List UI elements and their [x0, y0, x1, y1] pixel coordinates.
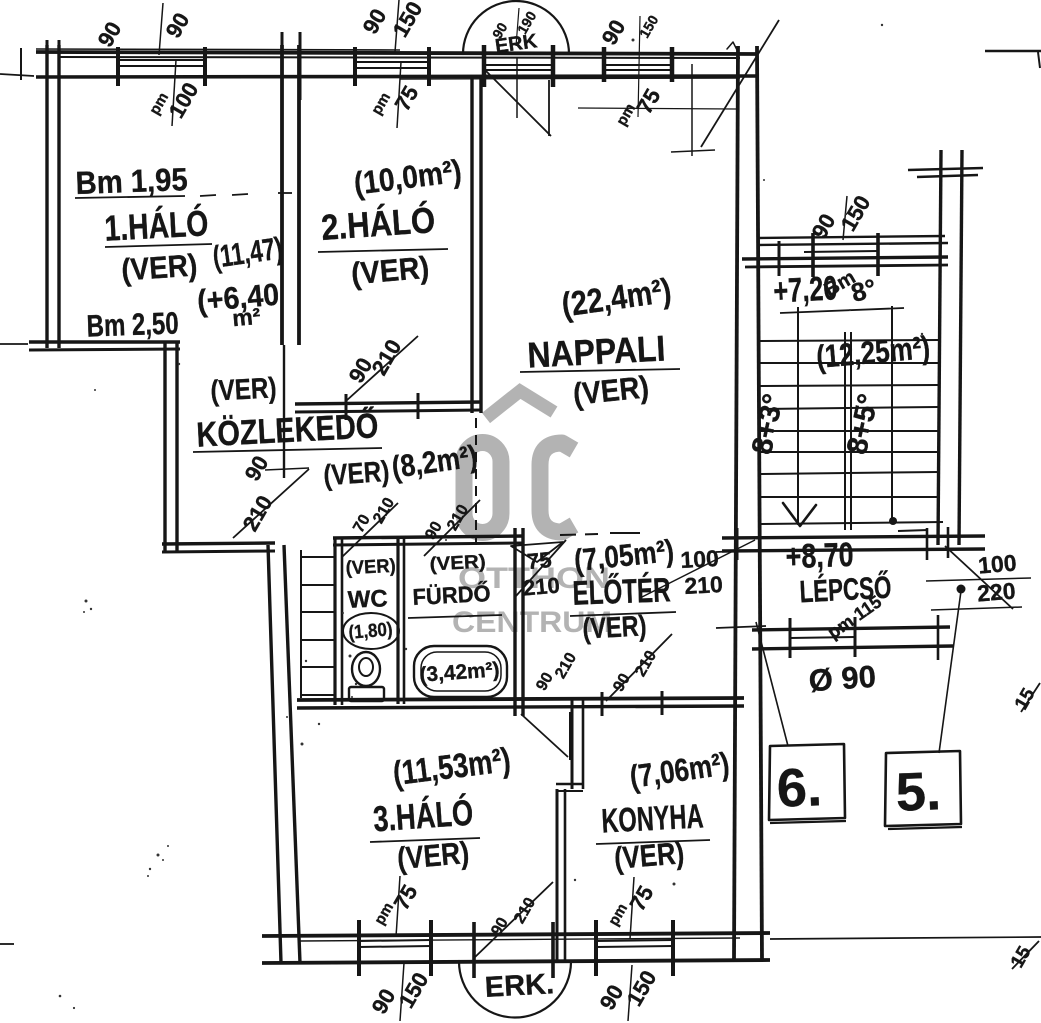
svg-text:+8,70: +8,70	[785, 536, 854, 576]
svg-text:Bm 2,50: Bm 2,50	[86, 305, 179, 343]
svg-text:3.HÁLÓ: 3.HÁLÓ	[372, 791, 475, 840]
svg-text:220: 220	[976, 577, 1016, 606]
svg-text:1.HÁLÓ: 1.HÁLÓ	[103, 201, 209, 248]
svg-text:210: 210	[522, 572, 561, 600]
svg-text:(VER): (VER)	[210, 372, 278, 407]
svg-text:(VER): (VER)	[350, 250, 431, 292]
svg-text:m²: m²	[231, 303, 262, 331]
svg-text:100: 100	[680, 545, 720, 573]
svg-text:2.HÁLÓ: 2.HÁLÓ	[320, 198, 437, 248]
svg-text:100: 100	[977, 549, 1017, 578]
svg-text:WC: WC	[347, 585, 388, 613]
svg-text:6.: 6.	[776, 757, 823, 819]
svg-text:Bm 1,95: Bm 1,95	[75, 161, 188, 201]
svg-text:(1,80): (1,80)	[348, 619, 394, 644]
svg-text:ELŐTÉR: ELŐTÉR	[572, 571, 671, 612]
svg-text:5.: 5.	[895, 761, 942, 823]
svg-text:Ø 90: Ø 90	[808, 659, 877, 699]
svg-text:75: 75	[526, 547, 553, 574]
svg-text:(VER): (VER)	[120, 247, 198, 287]
svg-text:(VER): (VER)	[582, 610, 648, 645]
svg-text:(VER): (VER)	[429, 552, 486, 576]
svg-text:210: 210	[684, 571, 724, 599]
svg-text:(VER): (VER)	[345, 556, 396, 580]
svg-text:(VER): (VER)	[613, 835, 686, 876]
svg-text:FÜRDŐ: FÜRDŐ	[412, 579, 491, 610]
svg-text:KONYHA: KONYHA	[600, 797, 704, 840]
svg-text:ERK.: ERK.	[484, 968, 555, 1004]
svg-text:(VER): (VER)	[396, 835, 471, 876]
svg-text:(VER): (VER)	[322, 456, 390, 493]
